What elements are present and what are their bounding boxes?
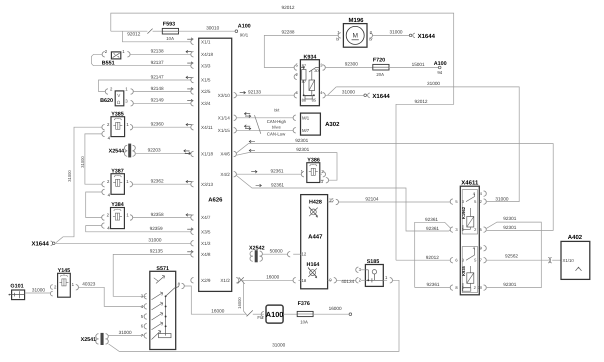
svg-text:X3/13: X3/13 xyxy=(201,182,213,187)
terminal A100 90/1 xyxy=(235,30,238,33)
wire 92203 X2544 to X1/18 xyxy=(136,153,191,155)
svg-text:40323: 40323 xyxy=(82,282,95,287)
svg-text:X3/10: X3/10 xyxy=(218,93,230,98)
svg-text:X4/7: X4/7 xyxy=(201,215,211,220)
svg-text:bl/t: bl/t xyxy=(274,108,280,113)
ECU A626 box xyxy=(199,38,232,291)
svg-text:X3/4: X3/4 xyxy=(201,101,211,106)
svg-text:X4611: X4611 xyxy=(461,179,479,186)
K935 resistor xyxy=(463,288,471,291)
instrument module A447 box xyxy=(301,195,328,289)
svg-text:92361: 92361 xyxy=(271,169,284,174)
svg-text:15001: 15001 xyxy=(412,62,425,67)
svg-text:A402: A402 xyxy=(568,234,583,241)
wire 92135 S571 pin3 to X4/8 xyxy=(113,254,191,296)
twisted pair slash xyxy=(255,115,261,134)
svg-text:92012: 92012 xyxy=(282,5,295,10)
sensor B551 xyxy=(111,52,120,59)
svg-text:X4/18: X4/18 xyxy=(201,52,213,57)
svg-text:X1644: X1644 xyxy=(418,33,436,40)
A402 antenna symbol xyxy=(576,267,582,271)
wire CAN-High X1/14 to A302 M/1 xyxy=(234,115,237,120)
svg-text:31000: 31000 xyxy=(342,90,355,95)
central electronic module A100 bottom xyxy=(266,305,283,323)
switch S185 xyxy=(365,265,383,287)
svg-text:A100: A100 xyxy=(238,24,251,30)
svg-text:90/1: 90/1 xyxy=(240,33,249,38)
svg-text:S185: S185 xyxy=(367,259,380,265)
svg-text:X2541: X2541 xyxy=(81,337,97,343)
connector X2542 xyxy=(255,251,257,262)
K934 coil xyxy=(309,80,315,91)
Y386 pin 3 xyxy=(320,179,324,181)
wire 92137 B551 pin2 loop to X3/3 xyxy=(91,54,190,65)
svg-text:G101: G101 xyxy=(10,284,23,290)
svg-text:Y387: Y387 xyxy=(111,168,124,174)
svg-text:A100: A100 xyxy=(434,61,447,67)
wire 92362 Y387 to X3/13 xyxy=(133,183,191,185)
svg-text:31000: 31000 xyxy=(495,197,508,202)
K935 coil xyxy=(467,273,474,284)
svg-text:92301: 92301 xyxy=(295,138,308,143)
svg-text:92012: 92012 xyxy=(127,31,140,36)
svg-text:85: 85 xyxy=(312,98,317,103)
sensor B620 xyxy=(115,91,124,106)
wire 15001 F720 to A100 94 xyxy=(389,67,438,69)
motor M196 xyxy=(343,24,367,48)
solenoid valve Y145 xyxy=(58,273,71,297)
relay holder X4611 box xyxy=(460,186,479,295)
svg-text:31000: 31000 xyxy=(390,30,403,35)
svg-text:F376: F376 xyxy=(298,301,310,307)
svg-text:M/1: M/1 xyxy=(302,115,310,120)
solenoid valve Y387 xyxy=(111,174,124,195)
Y386 pin 2 xyxy=(320,173,322,175)
svg-text:92362: 92362 xyxy=(151,179,164,184)
svg-text:92133: 92133 xyxy=(248,90,261,95)
svg-text:A447: A447 xyxy=(308,233,323,240)
wire 92562 X4611 5|7 to A402 xyxy=(487,259,548,261)
wire 92012 top feed from terminal 15 loop xyxy=(111,13,454,260)
relay K935 xyxy=(462,247,477,293)
wire 92360 Y385 to X4/11 xyxy=(133,126,191,128)
wire 92361 to X4611 8|1 xyxy=(415,287,450,289)
svg-text:X1/3: X1/3 xyxy=(201,241,211,246)
wire 92104 H428 to X4611 pin 5|3 xyxy=(339,201,451,203)
wire 31000 ground bus Y385 pin4 to Y387 pin 2 xyxy=(85,134,102,184)
svg-text:CAN-High: CAN-High xyxy=(267,119,287,124)
A447 pin 12 xyxy=(293,253,301,255)
svg-text:92361: 92361 xyxy=(427,282,440,287)
svg-text:Ω: Ω xyxy=(117,100,121,105)
wire 92361 link 3|1 to 8|1 xyxy=(415,222,451,287)
solenoid valve Y386 xyxy=(307,163,320,183)
svg-text:X1/15: X1/15 xyxy=(218,128,230,133)
svg-text:92361: 92361 xyxy=(425,217,438,222)
wire 92361 X4/2 to Y386 pin 1 xyxy=(234,172,237,177)
svg-text:92359: 92359 xyxy=(150,226,163,231)
S185 pin 1 xyxy=(383,279,387,281)
svg-text:31000: 31000 xyxy=(80,156,85,168)
svg-text:K1962: K1962 xyxy=(461,206,466,219)
svg-text:H164: H164 xyxy=(307,262,320,268)
svg-text:92138: 92138 xyxy=(151,49,164,54)
svg-text:31000: 31000 xyxy=(119,330,132,335)
svg-text:X2542: X2542 xyxy=(249,245,265,251)
svg-text:X1/10: X1/10 xyxy=(563,258,575,263)
connector X2544 xyxy=(129,144,131,157)
wire 92012 to fuse F593 xyxy=(111,30,148,32)
svg-text:86: 86 xyxy=(302,98,307,103)
svg-text:92301: 92301 xyxy=(503,282,516,287)
wire to A626 X1/1 xyxy=(122,31,190,42)
svg-text:92012: 92012 xyxy=(426,255,439,260)
svg-text:Y386: Y386 xyxy=(307,157,320,163)
connector X2541 xyxy=(101,333,103,344)
svg-text:A302: A302 xyxy=(325,121,340,128)
svg-text:92301: 92301 xyxy=(503,216,516,221)
wire 92148 B620 to X2/5 xyxy=(133,91,190,93)
svg-text:31000: 31000 xyxy=(272,343,285,348)
wire 31000 G101 to Y145 xyxy=(25,292,51,294)
svg-text:10: 10 xyxy=(478,285,483,290)
wire 16000 X1/2 to A447 pin 18 xyxy=(240,279,293,281)
wire 16000 branch down to fuse line xyxy=(244,282,248,316)
relay K934 xyxy=(300,60,319,106)
svg-text:A626: A626 xyxy=(208,196,223,203)
svg-text:F720: F720 xyxy=(373,58,385,64)
A302 pin M/7 xyxy=(293,128,296,133)
svg-text:12: 12 xyxy=(302,252,307,257)
svg-text:16000: 16000 xyxy=(266,275,279,280)
svg-text:15: 15 xyxy=(329,197,334,202)
svg-text:30010: 30010 xyxy=(206,25,219,30)
wire 30010 from F593 to A100 xyxy=(179,30,236,32)
svg-text:X2/9: X2/9 xyxy=(201,278,211,283)
control module A302 xyxy=(301,113,321,135)
svg-text:X1/18: X1/18 xyxy=(201,152,213,157)
wire A100 to F376 xyxy=(283,313,297,315)
wire 92361 X4/2 lower to X4611 3|1 xyxy=(237,176,451,231)
svg-text:92301: 92301 xyxy=(503,225,516,230)
junction X at X1/2 xyxy=(236,278,239,283)
wire ground Y387 pin4 to Y384 pin2 xyxy=(86,192,102,218)
svg-text:CAN-Low: CAN-Low xyxy=(267,132,286,137)
wire 92359 Y384 pin4 to X3/5 xyxy=(86,226,191,232)
wire 92358 Y384 to X4/7 xyxy=(133,217,191,219)
wire 92300 K934 to F720 xyxy=(325,67,373,69)
svg-text:92147: 92147 xyxy=(151,74,164,79)
svg-text:31000: 31000 xyxy=(32,288,45,293)
svg-text:X3/5: X3/5 xyxy=(201,229,211,234)
wire S185 pin1 ground to bottom 31000 xyxy=(109,280,400,351)
svg-text:10A: 10A xyxy=(166,36,174,41)
svg-text:18: 18 xyxy=(302,278,307,283)
svg-text:Y385: Y385 xyxy=(111,111,124,117)
svg-text:31000: 31000 xyxy=(67,170,72,182)
wire 92138 B551 to X4/18 xyxy=(130,53,191,55)
A447 pin 9 xyxy=(328,279,332,281)
svg-text:92012: 92012 xyxy=(415,99,428,104)
S571 resistor xyxy=(159,334,172,338)
svg-text:X4/11: X4/11 xyxy=(201,125,213,130)
wire 31000 X2541 to S571 pin 7 xyxy=(108,335,144,337)
svg-text:X1/1: X1/1 xyxy=(201,39,211,44)
svg-text:92149: 92149 xyxy=(151,98,164,103)
svg-text:M: M xyxy=(352,33,358,40)
svg-text:92361: 92361 xyxy=(271,183,284,188)
wire 92301 X4611 2|5 to 2|10 link xyxy=(486,222,541,288)
wire 40323 Y145 to S571 pin 4 xyxy=(79,287,145,306)
relay K1962 xyxy=(462,190,477,234)
switch unit S571 xyxy=(150,271,176,349)
module A402 xyxy=(561,241,590,279)
svg-text:X1/2: X1/2 xyxy=(220,278,230,283)
K1962 coil xyxy=(467,217,474,228)
splice slash on 92012 wire xyxy=(147,29,152,34)
svg-text:92361: 92361 xyxy=(426,226,439,231)
wire 31000 ground bus from X1644 to Y385 pin 2 xyxy=(56,127,102,242)
wire 92133 X3/10 to K934 pin 6 xyxy=(234,93,237,98)
svg-text:16000: 16000 xyxy=(211,309,224,314)
wire CAN-Low X1/15 to A302 M/7 xyxy=(234,128,237,133)
svg-text:40134: 40134 xyxy=(341,279,354,284)
svg-text:M196: M196 xyxy=(348,17,364,24)
svg-text:B620: B620 xyxy=(100,98,113,104)
K934 resistor xyxy=(305,96,312,99)
wire 50000 X2542 to A447 pin 12 xyxy=(262,253,287,255)
wire S571 pin 8 to 16000 line xyxy=(184,286,246,314)
svg-text:X4/8: X4/8 xyxy=(201,252,211,257)
svg-text:X3/3: X3/3 xyxy=(201,63,211,68)
svg-text:F593: F593 xyxy=(163,22,175,28)
solenoid valve Y384 xyxy=(111,208,125,229)
svg-text:92203: 92203 xyxy=(148,147,161,152)
svg-text:92358: 92358 xyxy=(151,212,164,217)
wire 40134 A447 to S185 xyxy=(337,279,356,281)
svg-text:Y145: Y145 xyxy=(58,268,71,274)
svg-text:94: 94 xyxy=(437,70,442,75)
svg-text:X2/5: X2/5 xyxy=(201,89,211,94)
wire 92301 X4/6 lower to Y386 xyxy=(237,153,337,181)
svg-text:Y384: Y384 xyxy=(111,202,124,208)
S571 internal contacts xyxy=(165,296,167,335)
svg-text:X1644: X1644 xyxy=(372,93,390,100)
wire 16000 from F376 to terminal xyxy=(313,313,349,315)
wire 92012 into X4611 6|3 xyxy=(396,259,450,261)
svg-text:X4/2: X4/2 xyxy=(220,172,230,177)
svg-text:92135: 92135 xyxy=(150,249,163,254)
svg-text:A100: A100 xyxy=(266,310,284,319)
wire 31000 to X1/3 xyxy=(55,242,191,244)
svg-text:31000: 31000 xyxy=(427,81,440,86)
svg-text:bl/ws: bl/ws xyxy=(272,124,281,129)
wire 92288 A100 to M196 and K934 xyxy=(264,35,338,67)
svg-text:K934: K934 xyxy=(303,55,316,61)
svg-text:X2544: X2544 xyxy=(109,148,125,154)
S571 pin8 internal link xyxy=(166,287,179,297)
svg-text:M/7: M/7 xyxy=(302,128,310,133)
svg-text:50000: 50000 xyxy=(270,249,283,254)
svg-text:H428: H428 xyxy=(309,200,322,206)
svg-text:10A: 10A xyxy=(300,319,308,324)
svg-text:X1/14: X1/14 xyxy=(218,115,230,120)
wire 31000 M196 to X1644 xyxy=(373,34,410,36)
svg-text:92137: 92137 xyxy=(151,60,164,65)
svg-text:16000: 16000 xyxy=(329,306,342,311)
K934 contact resistor xyxy=(302,70,306,81)
svg-text:92104: 92104 xyxy=(365,197,378,202)
wire 92301 X4/6 upper to X4611 2|5 xyxy=(234,151,237,156)
solenoid valve Y385 xyxy=(111,117,125,137)
svg-text:30: 30 xyxy=(314,68,319,73)
svg-text:92301: 92301 xyxy=(296,147,309,152)
wire 31000 K934 pin4 up to X4611 5|2 xyxy=(328,87,337,95)
svg-text:92562: 92562 xyxy=(505,253,518,258)
wire 31000 K934 pin 4 to X1644 xyxy=(325,94,364,96)
svg-text:92288: 92288 xyxy=(282,30,295,35)
svg-text:X1644: X1644 xyxy=(31,240,49,247)
svg-text:92360: 92360 xyxy=(151,122,164,127)
svg-text:X1/5: X1/5 xyxy=(201,78,211,83)
A447 pin 18 xyxy=(298,279,300,281)
svg-text:92300: 92300 xyxy=(345,61,358,66)
A447 pin 15 xyxy=(328,201,334,203)
svg-text:20A: 20A xyxy=(376,72,384,77)
A626 pin X2/9 bracket xyxy=(191,278,194,283)
A302 pin M/1 xyxy=(293,115,296,120)
svg-text:16000: 16000 xyxy=(237,297,242,309)
svg-text:K935: K935 xyxy=(461,265,466,276)
wire 92149 B620 to X3/4 xyxy=(133,102,190,104)
svg-text:X4/6: X4/6 xyxy=(220,152,230,157)
svg-text:S571: S571 xyxy=(156,266,169,272)
wire 92147 B620 to X1/5 xyxy=(99,80,191,92)
svg-text:92148: 92148 xyxy=(151,86,164,91)
svg-text:31000: 31000 xyxy=(148,238,161,243)
svg-text:Fla: Fla xyxy=(257,315,264,320)
